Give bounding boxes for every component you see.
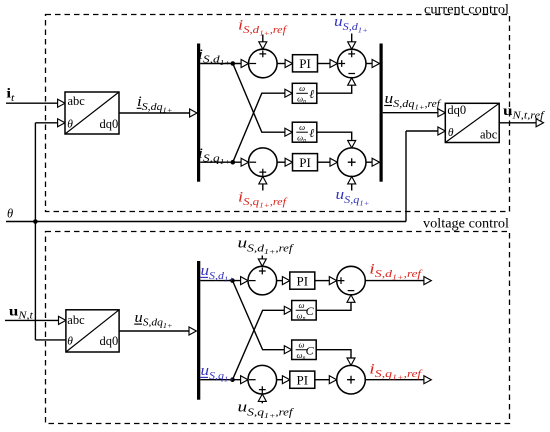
wire: u_S,q1+ branch [200,379,240,381]
wire: lower C out, down into q output summer [316,350,351,358]
bus bar (measured voltages) [197,261,200,400]
wire: lower decoupling out, down into q output summer [317,132,352,140]
svg-text:dq0: dq0 [100,117,119,131]
svg-text:θ: θ [67,119,73,131]
svg-text:ℓ: ℓ [309,126,314,140]
svg-text:abc: abc [68,94,86,108]
wire: u_S,q1+,ref up into summer [261,402,263,404]
wire: u_S,dq1+,ref to dq0/abc block [383,112,439,114]
junction dot q branch [231,160,236,165]
dashed frame: current control section [46,15,510,212]
junction dot voltage q branch [230,377,235,382]
wire: PI out to output summer (current d) [318,63,331,65]
svg-text:ω: ω [298,300,304,310]
wire: cross from d-dot down to lower decoupling block [233,64,286,133]
wire: u_S,dq1+ from block to bus [119,330,190,332]
dashed frame: voltage control section [46,232,510,424]
wire: i_S,q1+,ref up into summer [262,184,264,191]
wire: theta riser to dq0/abc block [405,131,407,222]
svg-text:abc: abc [480,128,498,142]
wire: error to PI (current d) [277,63,286,65]
transform block dq0-abc [445,103,499,142]
summing junction: current d error [248,49,277,78]
wire: u_N,t input [5,319,59,321]
junction dot d branch [231,61,236,66]
summing junction: voltage q output [337,365,366,394]
svg-text:dq0: dq0 [447,103,466,117]
svg-text:ω: ω [299,122,305,132]
wire: voltage q output i_S,q1+,ref [365,379,424,381]
wire: i_S,d1+ branch [200,63,241,65]
summing junction: voltage d error [248,266,277,295]
svg-text:abc: abc [67,313,85,327]
svg-text:θ: θ [67,336,73,348]
svg-text:voltage control: voltage control [423,215,509,230]
wire: theta horizontal [6,221,406,223]
svg-text:PI: PI [297,274,309,289]
wire: output summer q to bus2 [366,161,373,163]
svg-text:θ: θ [448,127,454,139]
decoupling block w/wn*l (lower) [292,122,317,142]
wire: PI out to output summer (current q) [318,161,331,163]
wire: error to PI (current q) [277,161,286,163]
summing junction: current d output [337,49,366,78]
svg-text:ω: ω [299,83,305,93]
svg-text:C: C [306,304,315,318]
wire: cross from q-dot up to upper decoupling block [233,93,286,162]
wire: theta vertical riser to both abc/dq0 blocks [34,123,36,340]
wire: PI out to output summer (voltage q) [315,379,330,381]
PI controller (voltage d) [290,272,315,289]
PI controller (voltage q) [290,371,315,388]
transform block abc-dq0 (voltage) [66,310,119,352]
wire: upper C out, up into d output summer [316,302,351,310]
wire: theta into bottom abc/dq0 block [35,339,66,341]
junction dot voltage d branch [230,278,235,283]
PI controller (current d) [293,55,318,72]
svg-text:PI: PI [299,56,311,71]
wire: theta into top abc/dq0 block [35,122,58,124]
svg-text:C: C [306,343,315,357]
decoupling block w/wn*l (upper) [292,83,317,103]
bus bar (voltage references dq) [380,44,383,182]
wire: u_N,t,ref output [499,122,536,124]
wire: u_S,q1+ up into summer [351,184,353,191]
wire: cross from q-dot up to upper C block [233,310,286,379]
wire: u_S,d1+ branch [200,280,240,282]
wire: error to PI (voltage q) [277,379,284,381]
junction dot on theta wire [33,219,38,224]
wire: voltage d output i_S,d1+,ref [365,280,424,282]
summing junction: current q output [337,148,366,177]
wire: upper decoupling out, up into d output summer [317,86,352,94]
svg-text:PI: PI [299,155,311,170]
bus bar (measured currents) [197,44,200,182]
svg-text:θ: θ [7,206,13,220]
wire: output summer d to bus2 [366,63,373,65]
wire: PI out to output summer (voltage d) [315,280,330,282]
wire: i_S,d1+,ref down into summer [262,35,264,43]
transform block abc-dq0 (current) [65,92,119,134]
wire: cross from d-dot down to lower C block [233,281,286,350]
wire: i_S,dq1+ from block to bus [119,112,190,114]
wire: i_t input [6,102,58,104]
summing junction: current q error [248,148,277,177]
summing junction: voltage q error [248,365,277,394]
wire: u_S,d1+ down into summer [351,34,353,43]
decoupling block w/wn*C (lower) [292,340,317,360]
svg-text:ω: ω [298,340,304,350]
svg-text:current control: current control [424,1,509,16]
wire: error to PI (voltage d) [277,280,284,282]
wire: i_S,q1+ branch [200,161,241,163]
svg-text:ℓ: ℓ [309,87,314,101]
svg-text:PI: PI [297,373,309,388]
decoupling block w/wn*C (upper) [292,301,317,321]
summing junction: voltage d output [337,266,366,295]
svg-text:dq0: dq0 [100,334,119,348]
wire: u_S,d1+,ref down into summer [261,256,263,260]
PI controller (current q) [293,154,318,171]
